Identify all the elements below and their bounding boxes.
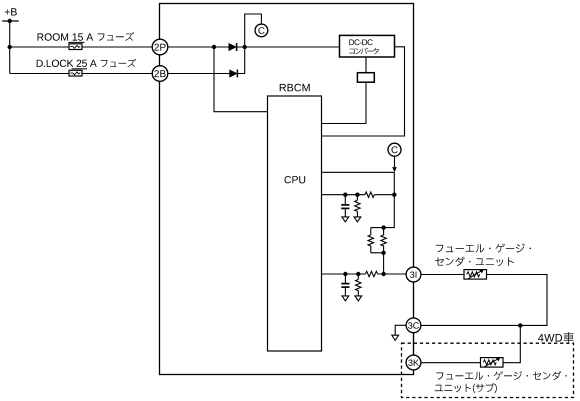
DC-DC converter kana: [349, 48, 379, 55]
wire 3I to 3C: [413, 282, 415, 318]
+B terminal bar: [2, 20, 19, 22]
wire to parallel resistor pair: [371, 195, 395, 228]
connector 3K: [406, 355, 421, 370]
ROOM fuse label kana: [97, 32, 134, 41]
connector 2B: [152, 66, 168, 82]
4WD label: [538, 334, 562, 342]
wire loop up to connector C: [245, 14, 262, 47]
wire CPU network line 1: [322, 194, 395, 196]
D.LOCK fuse label kana: [101, 59, 136, 67]
diode D2: [230, 70, 238, 78]
diode D1: [229, 43, 237, 51]
node dot pair bottom: [381, 251, 385, 255]
wire 3I to sender: [421, 274, 464, 276]
wire pair bottom rung: [371, 253, 384, 274]
DC-DC converter text: [349, 39, 372, 45]
wire CPU to C2 node and down: [322, 172, 395, 194]
small component box under DC-DC: [357, 73, 374, 83]
capacitor C4 to ground: [341, 274, 349, 301]
RBCM label: [280, 84, 310, 92]
node dot line1 right: [392, 193, 396, 197]
node dot after D1: [243, 45, 247, 49]
fuel gauge sender label line1: [436, 244, 531, 253]
wire 3C to ground: [395, 325, 406, 335]
+B power label: [5, 8, 17, 15]
resistor R4 left of pair: [368, 228, 373, 253]
wire C2 down: [394, 156, 396, 167]
connector C2: [388, 143, 401, 156]
wire sub sender up to 3C line node: [503, 325, 520, 362]
connector 3I: [406, 267, 421, 282]
wire 2P branch down into CPU: [214, 47, 268, 112]
+B junction dot: [8, 19, 12, 23]
node dot line2 pair: [381, 272, 385, 276]
ROOM fuse label: [38, 33, 94, 40]
connector 2P: [152, 39, 168, 55]
wire sender loop to 3C line: [421, 275, 547, 326]
wire 2B line with riser: [168, 47, 245, 74]
node dot 2P branch: [212, 45, 216, 49]
resistor R2 to ground: [354, 195, 361, 222]
ROOM label underline: [68, 41, 84, 43]
DC-DC converter box: [340, 35, 395, 57]
wire DC-DC bottom to small box: [365, 57, 367, 73]
D.LOCK label underline: [72, 68, 88, 70]
connector C1: [255, 24, 268, 37]
RBCM module boundary box: [160, 4, 414, 375]
wire 2P to DC-DC converter: [168, 46, 340, 48]
CPU box: [268, 96, 322, 351]
node dot on 3C line: [518, 323, 522, 327]
wire small box down into CPU: [322, 82, 367, 123]
fuse F2 D.LOCK 25A: [69, 70, 82, 76]
ground arrow at 3C: [392, 335, 399, 340]
connector 3C: [406, 318, 421, 333]
junction dot ROOM branch: [8, 45, 12, 49]
resistor R1 series line1: [365, 192, 374, 197]
node dot line2 res: [356, 272, 360, 276]
fuel gauge sender label line2: [435, 257, 514, 266]
dashed box 4WD sub sender unit: [402, 343, 574, 397]
node dot line1 cap: [343, 193, 347, 197]
wire D.LOCK line to 2B: [10, 73, 153, 75]
sub sender label line1: [436, 371, 567, 380]
wire CPU network line 2: [322, 273, 407, 275]
wire 3K to sub sender: [421, 362, 481, 364]
variable resistor VR2 sub sender: [481, 358, 504, 368]
node dot line1 res: [355, 193, 359, 197]
node dot pair top: [381, 225, 385, 229]
wire ROOM line to 2P: [10, 46, 153, 48]
fuse F1 ROOM 15A: [69, 44, 82, 50]
wire DC-DC right loop into CPU: [322, 47, 405, 136]
resistor R5 right of pair: [381, 228, 386, 253]
resistor R3 series line2: [365, 271, 377, 276]
wire 3C to 3K: [413, 333, 415, 355]
sub sender label line2: [435, 383, 497, 393]
wire +B down to D.LOCK line: [9, 21, 11, 74]
CPU label: [285, 176, 306, 183]
node dot line2 cap: [343, 272, 347, 276]
4WD kanji: [564, 332, 574, 342]
variable resistor VR1 fuel sender: [464, 270, 487, 280]
resistor R6 to ground: [355, 274, 362, 301]
arrowhead from C2: [392, 167, 397, 172]
capacitor C3 to ground: [341, 195, 349, 222]
D.LOCK fuse label: [37, 60, 97, 67]
